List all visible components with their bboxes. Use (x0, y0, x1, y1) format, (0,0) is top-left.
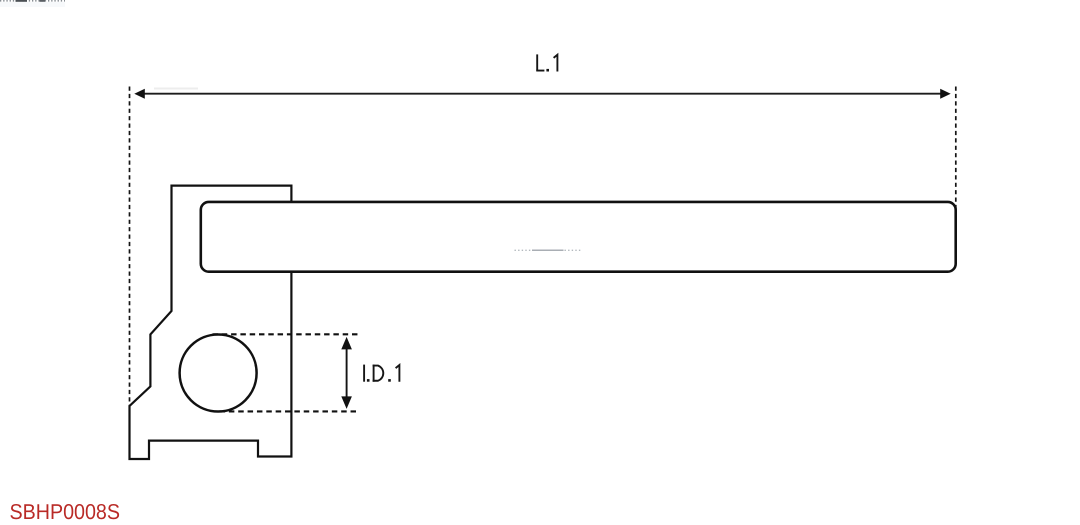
svg-text:SBHP0008S: SBHP0008S (9, 500, 120, 524)
